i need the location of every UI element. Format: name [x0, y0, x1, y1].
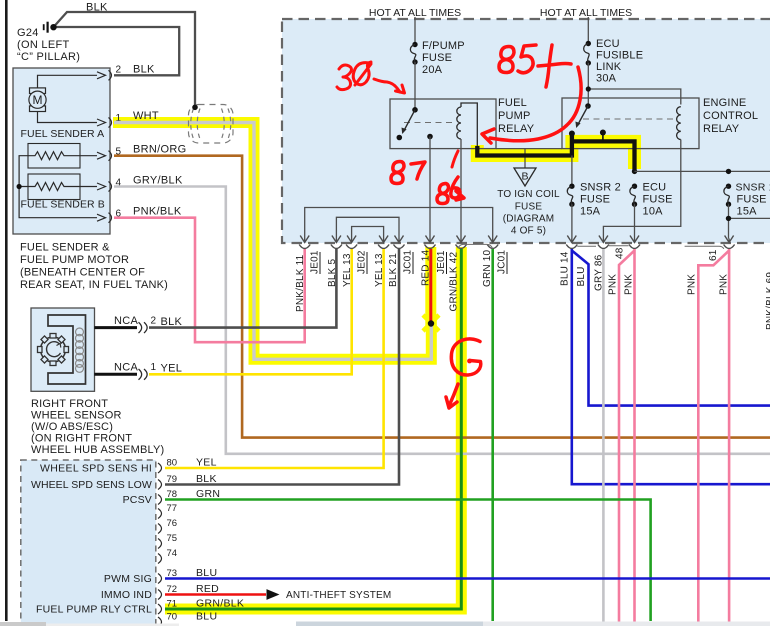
svg-text:RELAY: RELAY: [703, 123, 740, 135]
engine control relay box: [562, 98, 699, 149]
svg-text:B: B: [521, 171, 528, 183]
wheel sensor lead pin 1: [94, 362, 182, 380]
wire GRY/BLK from pin 4: [114, 187, 770, 454]
red annotation curve arrow to 86 terminal: [482, 67, 581, 143]
svg-text:JE01: JE01: [436, 250, 447, 274]
ECM dashed box background: [21, 460, 156, 626]
fuse ECU 10A: [630, 182, 673, 218]
caption fuel sender location: [20, 242, 168, 292]
svg-text:WHEEL SPD SENS HI: WHEEL SPD SENS HI: [40, 463, 152, 475]
engine control relay linkage dashed: [583, 118, 676, 120]
fuel sender box: [13, 68, 110, 234]
sender pin 6: [97, 206, 182, 223]
ECM pin 71: [36, 598, 244, 616]
wheel sensor box: [31, 308, 95, 391]
red annotation 86: [437, 177, 464, 204]
svg-text:BLK: BLK: [133, 64, 155, 76]
wire YEL wheel sensor to pin YEL 13: [149, 249, 352, 374]
svg-text:LINK: LINK: [596, 61, 622, 73]
svg-text:G24: G24: [17, 27, 39, 39]
red annotation G: [451, 339, 480, 375]
wire feed to F/PUMP fuse: [414, 17, 416, 44]
svg-text:PNK: PNK: [687, 274, 698, 295]
wire BLK from fuel sender pin 2 to G24: [56, 27, 179, 75]
left page border bar: [5, 0, 8, 621]
rotated label PNK/BLK 69 clipped: [765, 272, 770, 330]
label FUEL PUMP RELAY: [498, 97, 535, 135]
label FUEL SENDER B: [21, 199, 105, 211]
svg-text:FUEL SENDER B: FUEL SENDER B: [21, 199, 105, 211]
ECM pin 70: [158, 611, 217, 626]
wire GRY 86 below pin: [602, 249, 605, 622]
svg-text:PCSV: PCSV: [123, 494, 152, 506]
svg-text:PNK: PNK: [608, 274, 619, 295]
svg-text:FUSE: FUSE: [422, 52, 452, 64]
rotated label BLK 5: [327, 259, 338, 287]
rotated label YEL 13: [342, 253, 353, 287]
wire BLU PWM SIG: [165, 577, 770, 580]
svg-text:BLU: BLU: [576, 266, 587, 286]
svg-text:ECU: ECU: [596, 38, 620, 50]
svg-text:TO IGN COIL: TO IGN COIL: [497, 189, 560, 200]
engine control relay switch: [575, 103, 590, 128]
grey line from thick wire to SNSR1 and edge: [635, 169, 770, 174]
svg-text:GRY/BLK: GRY/BLK: [133, 175, 183, 187]
svg-text:61: 61: [708, 249, 719, 261]
red annotation 30: [337, 62, 405, 93]
svg-text:2: 2: [116, 65, 122, 76]
resistor fuel sender B: [28, 174, 80, 200]
ECM pin 74: [158, 548, 177, 564]
red annotation 87: [391, 162, 425, 184]
wire fuse to fuel pump relay: [414, 62, 416, 110]
wheel sensor coil: [76, 328, 84, 372]
B triangle to ign coil fuse: [497, 168, 560, 237]
svg-text:PUMP: PUMP: [498, 110, 531, 122]
rotated label PNK a: [608, 274, 619, 295]
rotated label RED 14: [421, 250, 432, 286]
relay bottoms bridge line: [496, 148, 562, 150]
svg-text:RIGHT FRONT: RIGHT FRONT: [31, 398, 108, 410]
svg-text:74: 74: [167, 548, 178, 559]
ECM pin 78: [123, 488, 221, 506]
rotated label BLU: [576, 266, 587, 286]
rotated label BLU 14: [560, 251, 571, 286]
rotated label JE02: [357, 250, 368, 274]
ECM pin 77: [158, 503, 177, 519]
svg-text:BLK: BLK: [161, 316, 183, 328]
wire to SNSR 2 fuse: [571, 156, 573, 187]
svg-text:PNK/BLK 69: PNK/BLK 69: [765, 272, 770, 330]
svg-text:YEL 13: YEL 13: [342, 253, 353, 287]
label HOT AT ALL TIMES left: [369, 7, 461, 19]
svg-text:1: 1: [151, 362, 157, 373]
svg-text:(BENEATH CENTER OF: (BENEATH CENTER OF: [20, 267, 145, 279]
fuse SNSR 1 15A: [724, 182, 770, 218]
rotated label GRN 10: [482, 249, 493, 287]
wheel sensor housing: [48, 315, 86, 384]
engine control relay coil: [677, 107, 681, 140]
wire BLU 14 split below pin: [572, 249, 770, 484]
jumper bus pins 13 to 13: [352, 227, 384, 239]
wire BRN/ORG from pin 5: [114, 156, 770, 438]
highlighter on GRN/BLK fuel pump relay control wire: [165, 247, 461, 609]
svg-text:(ON RIGHT FRONT: (ON RIGHT FRONT: [31, 433, 132, 445]
svg-text:FUEL SENDER &: FUEL SENDER &: [20, 242, 110, 254]
svg-text:JE02: JE02: [357, 250, 368, 274]
ECM pin 80: [40, 457, 217, 475]
rotated label GRY 86: [594, 254, 605, 291]
svg-text:FUEL: FUEL: [498, 97, 527, 109]
rotated label JC01 second: [497, 250, 508, 274]
caption wheel sensor: [31, 398, 164, 456]
svg-text:76: 76: [167, 518, 178, 529]
highlighter on WHT wire: [113, 123, 431, 360]
fuel pump relay coil: [457, 103, 478, 149]
wire ECU fuse to pin 48: [634, 204, 636, 238]
wire BLK pin 79 to BLK 21: [165, 249, 399, 485]
svg-text:GRN/BLK 42: GRN/BLK 42: [449, 251, 460, 311]
fuel pump relay linkage dashed: [404, 122, 456, 124]
svg-text:15A: 15A: [580, 206, 601, 218]
svg-text:NCA: NCA: [114, 315, 138, 327]
svg-text:BLK 5: BLK 5: [327, 259, 338, 287]
svg-text:SNSR 2: SNSR 2: [580, 182, 621, 194]
resistor B lead to pin 4: [80, 186, 97, 188]
wire GRN PCSV: [165, 500, 651, 622]
fuel pump relay box: [390, 99, 496, 149]
highlighter on relay 85 feed thick wire: [477, 135, 634, 169]
rotated label JC01: [403, 250, 414, 274]
wire motor to pin 1: [38, 112, 98, 123]
svg-text:PNK/BLK: PNK/BLK: [133, 206, 182, 218]
red annotation down arrow: [446, 384, 458, 408]
svg-text:20A: 20A: [422, 64, 443, 76]
wire PNK 61 split below pin: [698, 249, 729, 622]
svg-text:YEL: YEL: [161, 363, 183, 375]
connector brackets between pin cups: [458, 244, 724, 248]
wire RED IMMO IND to anti-theft: [165, 589, 391, 601]
sender pin 2: [97, 64, 155, 81]
resistor A lead to pin 5: [80, 155, 97, 157]
wire SNSR1 branch right: [726, 204, 770, 238]
highlighter on RED 14 wire: [425, 247, 436, 326]
ECM pin 79: [31, 473, 217, 491]
junction dot WHT RED: [428, 320, 434, 326]
svg-text:77: 77: [167, 503, 178, 514]
svg-text:BRN/ORG: BRN/ORG: [133, 144, 186, 156]
red annotation 85 plus: [499, 45, 571, 87]
svg-text:FUSE: FUSE: [580, 194, 610, 206]
svg-text:IMMO IND: IMMO IND: [101, 589, 152, 601]
svg-text:WHEEL HUB ASSEMBLY): WHEEL HUB ASSEMBLY): [31, 444, 164, 456]
ECM pin 76: [158, 518, 177, 534]
rotated label PNK b: [624, 274, 635, 295]
svg-text:SNSR 1: SNSR 1: [736, 182, 770, 194]
svg-text:M: M: [33, 93, 43, 107]
wire WHT from pin 1 to junction with RED 14: [114, 123, 431, 360]
svg-text:PWM SIG: PWM SIG: [104, 573, 152, 585]
wheel sensor tone ring gear: [38, 334, 69, 366]
wire fuel pump relay coil to pin GRN/BLK 42: [460, 139, 462, 239]
svg-text:(ON LEFT: (ON LEFT: [17, 39, 70, 51]
svg-text:GRN/BLK: GRN/BLK: [196, 598, 244, 610]
sender pin 1: [97, 110, 159, 128]
wire GRN 10 below pin: [491, 249, 494, 621]
fuel pump relay common contact: [427, 134, 433, 140]
sender internal bus to pin 6: [17, 156, 98, 218]
rotated label 48: [615, 247, 626, 259]
resistor fuel sender A: [28, 144, 80, 169]
fusible link ECU 30A: [584, 38, 644, 85]
svg-text:PNK/BLK 11: PNK/BLK 11: [295, 254, 306, 312]
dashed inline connector on WHT wire: [189, 105, 234, 144]
ECM pin 75: [158, 533, 177, 549]
svg-text:(W/O ABS/ESC): (W/O ABS/ESC): [31, 421, 113, 433]
rotated label 61: [708, 249, 719, 261]
fuse SNSR 2 15A: [567, 182, 621, 218]
thick wire relay 87a/85 highlighted black: [477, 130, 637, 175]
wire PNK 48 split below pin: [619, 249, 635, 622]
rotated label YEL 13 second: [374, 253, 385, 287]
ECM pin 72: [101, 583, 219, 601]
svg-text:BLK: BLK: [86, 2, 108, 14]
wire motor to pin 2: [38, 75, 98, 88]
wire feed to ECU fusible link: [587, 17, 589, 43]
wire BLK from G24 to dashed connector: [54, 12, 195, 105]
jumper bus pins 11 to 10: [305, 208, 493, 239]
svg-text:CONTROL: CONTROL: [703, 110, 758, 122]
rotated label GRN/BLK 42: [449, 251, 460, 311]
motor M fuel pump: [29, 88, 46, 112]
svg-text:FUSIBLE: FUSIBLE: [596, 50, 643, 62]
sender pin 4: [97, 175, 183, 192]
svg-text:GRN 10: GRN 10: [482, 249, 493, 287]
jumper bus pins 5 to 21: [336, 217, 399, 238]
label FUEL SENDER A: [21, 128, 105, 140]
rotated label JE01: [310, 250, 321, 274]
wire GRN/BLK 42 to ECM pin 71: [165, 249, 461, 609]
wire RED 14 below pin: [429, 249, 432, 324]
svg-text:WHEEL SENSOR: WHEEL SENSOR: [31, 410, 122, 422]
wire fusible link to engine control relay and coil branch: [586, 63, 681, 106]
svg-text:“C” PILLAR): “C” PILLAR): [17, 51, 80, 63]
svg-text:JC01: JC01: [403, 250, 414, 274]
label BLK top: [86, 2, 108, 14]
svg-text:JC01: JC01: [497, 250, 508, 274]
wire BLK wheel sensor to pin BLK 5: [149, 249, 336, 328]
junction row pin arrows and cups: [299, 236, 734, 249]
junction dot BLK drop on connector: [192, 105, 198, 111]
svg-text:FUEL PUMP RLY CTRL: FUEL PUMP RLY CTRL: [36, 604, 152, 616]
red annotation slash: [452, 151, 458, 167]
svg-text:ECU: ECU: [643, 182, 667, 194]
svg-text:ANTI-THEFT SYSTEM: ANTI-THEFT SYSTEM: [286, 590, 391, 601]
bottom UI strip segments: [0, 622, 770, 626]
wire engine relay coil to pin GRY 86: [603, 140, 680, 239]
wire SNSR2 fuse to pin BLU 14: [571, 204, 573, 238]
highlighter X at WHT/RED junction: [423, 315, 439, 331]
svg-text:WHT: WHT: [133, 110, 159, 122]
fuse F/PUMP 20A: [410, 40, 464, 76]
rotated label BLK 21: [388, 253, 399, 287]
svg-text:BLK 21: BLK 21: [388, 253, 399, 287]
label HOT AT ALL TIMES right: [540, 7, 632, 19]
svg-text:15A: 15A: [737, 206, 758, 218]
svg-text:48: 48: [615, 247, 626, 259]
svg-text:NCA: NCA: [114, 362, 138, 374]
sender pin 5: [97, 144, 186, 161]
svg-text:30A: 30A: [596, 73, 617, 85]
label ENGINE CONTROL RELAY: [703, 97, 758, 135]
ground G24: [17, 22, 80, 63]
svg-text:BLU 14: BLU 14: [560, 251, 571, 286]
ECM pin 73: [104, 567, 217, 585]
rotated label PNK d: [719, 274, 730, 295]
stub to B triangle: [524, 149, 526, 168]
svg-text:70: 70: [167, 612, 178, 623]
svg-text:FUEL PUMP MOTOR: FUEL PUMP MOTOR: [20, 254, 129, 266]
svg-text:JE01: JE01: [310, 250, 321, 274]
svg-text:F/PUMP: F/PUMP: [422, 40, 465, 52]
svg-text:ENGINE: ENGINE: [703, 97, 746, 109]
wire fuel pump relay contact to pin RED 14: [429, 137, 431, 239]
svg-text:10A: 10A: [643, 206, 664, 218]
svg-text:FUSE: FUSE: [737, 194, 767, 206]
svg-text:PNK: PNK: [624, 274, 635, 295]
svg-text:FUSE: FUSE: [515, 201, 543, 212]
svg-text:RELAY: RELAY: [498, 123, 535, 135]
svg-text:75: 75: [167, 533, 178, 544]
svg-text:REAR SEAT, IN FUEL TANK): REAR SEAT, IN FUEL TANK): [20, 279, 168, 291]
svg-text:4 OF 5): 4 OF 5): [511, 226, 546, 237]
rotated label PNK/BLK 11: [295, 254, 306, 312]
rotated label JE01 second: [436, 250, 447, 274]
svg-text:2: 2: [151, 316, 157, 327]
svg-text:(DIAGRAM: (DIAGRAM: [503, 214, 555, 225]
fuel pump relay switch: [397, 107, 418, 140]
wire YEL pin 80 to YEL 13 JE02: [165, 249, 384, 468]
fuse/relay dashed power box background: [282, 19, 770, 243]
svg-text:71: 71: [167, 599, 178, 610]
wheel sensor lead pin 2: [94, 315, 182, 333]
wire PNK/BLK from pin 6 to pin 11: [114, 218, 305, 343]
svg-text:HOT AT ALL TIMES: HOT AT ALL TIMES: [540, 7, 632, 19]
svg-text:WHEEL SPD SENS LOW: WHEEL SPD SENS LOW: [31, 479, 152, 491]
rotated label PNK c: [687, 274, 698, 295]
svg-text:BLU: BLU: [196, 611, 217, 623]
svg-text:FUSE: FUSE: [643, 194, 673, 206]
svg-text:FUEL SENDER A: FUEL SENDER A: [21, 128, 105, 140]
